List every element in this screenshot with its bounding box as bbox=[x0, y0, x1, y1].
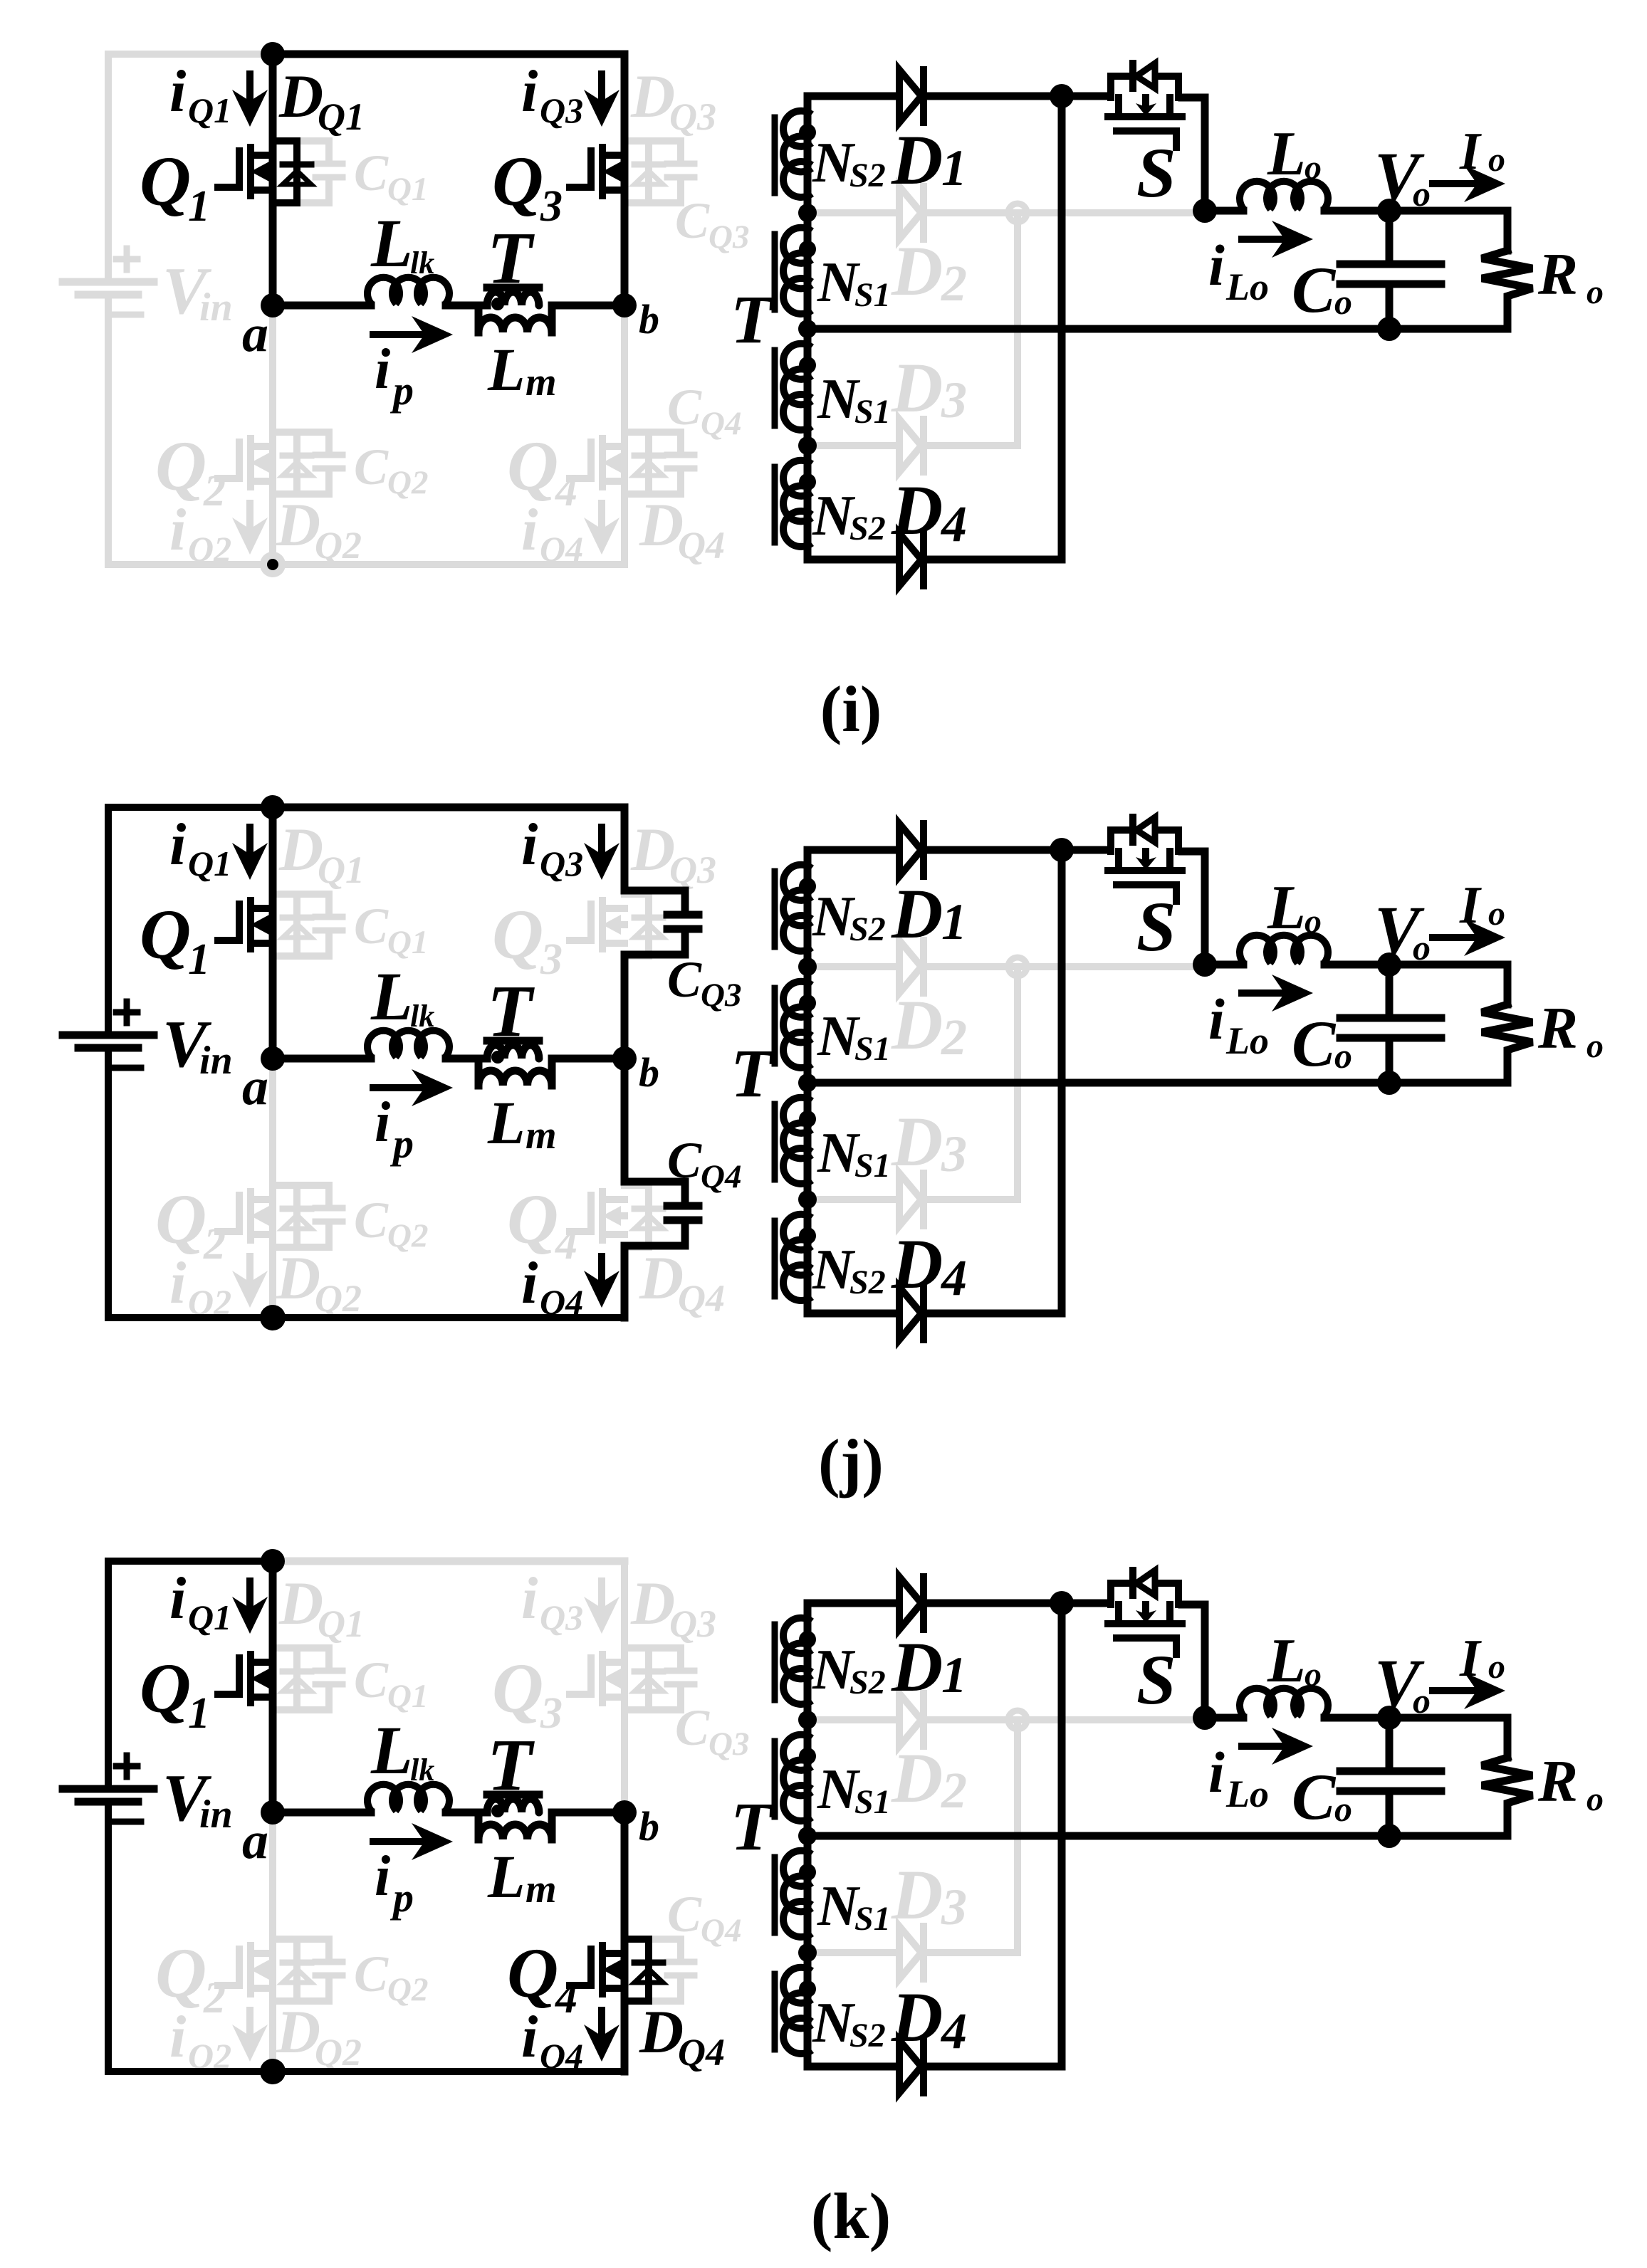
svg-text:Lo: Lo bbox=[1225, 1019, 1269, 1062]
svg-text:1: 1 bbox=[188, 1689, 210, 1738]
svg-text:S1: S1 bbox=[854, 1147, 891, 1185]
inductor Llk (j) bbox=[367, 1031, 399, 1057]
svg-text:i: i bbox=[521, 2004, 538, 2070]
node: output return (j) bbox=[1377, 1071, 1401, 1095]
svg-text:3: 3 bbox=[540, 182, 563, 231]
arrow iQ2 (j) bbox=[246, 1256, 253, 1281]
capacitor CQ2 (i) bbox=[297, 432, 329, 452]
svg-text:Lo: Lo bbox=[1225, 1773, 1269, 1815]
wire: cathode bus (i) bbox=[1058, 96, 1066, 560]
body diode DQ2 (j) bbox=[273, 1185, 297, 1247]
inductor Lm (k) bbox=[475, 1812, 483, 1839]
svg-text:1: 1 bbox=[188, 935, 210, 984]
svg-text:S2: S2 bbox=[849, 157, 886, 194]
arrow iQ1 (k) bbox=[246, 1581, 253, 1607]
svg-text:C: C bbox=[354, 439, 389, 495]
svg-text:S2: S2 bbox=[849, 510, 886, 547]
capacitor CQ2 (j) bbox=[297, 1185, 329, 1205]
wire: transformer to node b (j) bbox=[552, 1055, 624, 1063]
transformer T secondary core (i) bbox=[772, 117, 778, 193]
wire: transformer to node b (i) bbox=[552, 302, 624, 310]
svg-text:Q: Q bbox=[155, 1933, 206, 2012]
voltage source Vin (k) bbox=[63, 1785, 154, 1793]
svg-text:i: i bbox=[521, 1565, 538, 1632]
svg-text:T: T bbox=[731, 1035, 775, 1111]
svg-text:i: i bbox=[521, 812, 538, 878]
svg-text:Q1: Q1 bbox=[387, 924, 428, 961]
wire: top rail left (k) bbox=[108, 1558, 273, 1565]
svg-text:S2: S2 bbox=[849, 2017, 886, 2054]
winding NS1 upper (i) bbox=[783, 228, 812, 263]
node Vo (j) bbox=[1377, 952, 1401, 977]
node: D2 open circle (i) bbox=[1008, 204, 1027, 222]
svg-text:Q: Q bbox=[155, 426, 206, 505]
transistor Q2 (off) (i) bbox=[218, 442, 239, 478]
wire: left leg through Q1 (i) bbox=[269, 54, 277, 305]
arrow iQ4 (i) bbox=[598, 503, 605, 527]
wire: S to Lo node (j) bbox=[1182, 851, 1205, 965]
body diode of S (i) bbox=[1111, 76, 1129, 98]
svg-text:2: 2 bbox=[203, 1220, 226, 1269]
svg-text:1: 1 bbox=[941, 140, 967, 196]
arrow iQ2 (k) bbox=[246, 2010, 253, 2035]
svg-text:Q2: Q2 bbox=[387, 464, 428, 501]
winding NS1 lower (k) bbox=[783, 1851, 812, 1886]
node: NS2/NS1 junction (j) bbox=[798, 957, 817, 976]
transistor Q2 (off) (j) bbox=[218, 1195, 239, 1232]
svg-text:a: a bbox=[242, 1812, 268, 1870]
node: bottom junction (k) bbox=[260, 2059, 286, 2084]
svg-text:Q3: Q3 bbox=[669, 849, 716, 891]
wire: right leg above node b (k) bbox=[621, 1561, 628, 1812]
arrow iQ1 (j) bbox=[246, 827, 253, 853]
wire: Vin input frame left (i) bbox=[105, 54, 112, 282]
capacitor Co (j) bbox=[1386, 965, 1394, 1014]
svg-text:D: D bbox=[891, 1102, 943, 1181]
wire: secondary winding stack (k) bbox=[804, 1603, 812, 2049]
svg-text:1: 1 bbox=[941, 1647, 967, 1703]
svg-text:C: C bbox=[354, 145, 389, 201]
wire: Vin input frame left (j) bbox=[105, 807, 112, 1035]
wire: right leg below node b (j) bbox=[621, 1059, 629, 1182]
svg-text:T: T bbox=[487, 217, 535, 299]
arrow iQ3 (k) bbox=[598, 1581, 605, 1607]
wire: left leg through Q1 (j) bbox=[269, 807, 277, 1059]
svg-text:Q1: Q1 bbox=[188, 844, 231, 883]
capacitor CQ1 (j) bbox=[297, 894, 329, 914]
node: NS2/NS1 junction (i) bbox=[798, 204, 817, 222]
svg-text:D: D bbox=[891, 1627, 943, 1706]
svg-text:C: C bbox=[1292, 1007, 1337, 1080]
svg-text:S: S bbox=[1136, 133, 1176, 212]
svg-text:Q3: Q3 bbox=[540, 90, 583, 130]
svg-text:I: I bbox=[1459, 122, 1482, 181]
svg-text:in: in bbox=[199, 1039, 233, 1083]
svg-text:3: 3 bbox=[540, 1689, 563, 1738]
node Vo (k) bbox=[1377, 1706, 1401, 1730]
wire: top rail right (i) bbox=[273, 51, 624, 58]
node: center tap (k) bbox=[798, 1827, 817, 1845]
capacitor CQ3 (i) bbox=[649, 141, 681, 161]
svg-text:lk: lk bbox=[410, 1753, 434, 1787]
svg-text:S1: S1 bbox=[854, 1900, 891, 1938]
wire: left leg below node a (i) bbox=[269, 305, 276, 565]
wire: right leg below node b (k) bbox=[621, 1812, 629, 2072]
svg-text:Q2: Q2 bbox=[387, 1217, 428, 1254]
svg-text:D: D bbox=[639, 1997, 684, 2066]
svg-text:i: i bbox=[521, 497, 538, 563]
svg-text:i: i bbox=[375, 1845, 390, 1908]
svg-text:Q: Q bbox=[507, 426, 558, 505]
svg-text:o: o bbox=[1488, 141, 1505, 179]
node: D2 open circle (k) bbox=[1008, 1711, 1027, 1729]
svg-text:Q2: Q2 bbox=[315, 524, 362, 567]
svg-text:L: L bbox=[487, 335, 526, 404]
svg-text:D: D bbox=[630, 62, 675, 130]
svg-text:D: D bbox=[891, 1855, 943, 1934]
capacitor CQ3 (k) bbox=[649, 1648, 681, 1668]
transistor Q3 (k) bbox=[570, 1658, 591, 1694]
svg-text:Q: Q bbox=[140, 142, 191, 221]
svg-text:m: m bbox=[526, 1867, 557, 1911]
wire: left leg through Q1 (k) bbox=[269, 1561, 277, 1812]
svg-text:Q1: Q1 bbox=[387, 171, 428, 208]
inductor Lm (j) bbox=[475, 1059, 483, 1086]
switch S (j) bbox=[1108, 867, 1129, 874]
svg-text:i: i bbox=[521, 58, 538, 125]
svg-text:4: 4 bbox=[555, 1974, 577, 2022]
winding NS2 bottom (i) bbox=[783, 461, 812, 496]
svg-text:S1: S1 bbox=[854, 276, 891, 314]
svg-text:C: C bbox=[354, 1192, 389, 1249]
svg-text:C: C bbox=[675, 1699, 710, 1756]
body diode DQ3 (k) bbox=[624, 1648, 649, 1710]
svg-text:o: o bbox=[1334, 1036, 1352, 1076]
diode D1 (k) bbox=[807, 1600, 896, 1607]
svg-text:4: 4 bbox=[940, 495, 967, 552]
svg-text:(k): (k) bbox=[811, 2180, 891, 2252]
wire: secondary winding stack (i) bbox=[804, 96, 812, 542]
arrow Io (i) bbox=[1433, 180, 1475, 187]
wire: cathode bus (k) bbox=[1058, 1603, 1066, 2067]
capacitor CQ4 (k) bbox=[649, 1939, 681, 1959]
arrow iQ4 (j) bbox=[598, 1256, 605, 1281]
wire: Vo to Ro (i) bbox=[1389, 211, 1507, 251]
svg-text:D: D bbox=[639, 1244, 684, 1312]
transformer T primary winding (k) bbox=[487, 1799, 539, 1812]
wire: right leg above node b (i) bbox=[621, 54, 629, 305]
winding NS1 upper (j) bbox=[783, 982, 812, 1017]
diode D3 (off) (k) bbox=[807, 1949, 896, 1956]
wire: secondary winding stack (j) bbox=[804, 850, 812, 1296]
body diode DQ3 (i) bbox=[624, 141, 649, 203]
svg-text:D: D bbox=[891, 874, 943, 953]
node Vo (i) bbox=[1377, 199, 1401, 223]
svg-text:C: C bbox=[667, 379, 702, 436]
svg-text:D: D bbox=[276, 1997, 320, 2066]
node: top junction (k) bbox=[261, 1549, 285, 1573]
winding NS2 top (i) bbox=[783, 111, 812, 147]
transistor Q4 (k) bbox=[570, 1949, 591, 1985]
resistor Ro (j) bbox=[1482, 1004, 1532, 1083]
svg-text:Q4: Q4 bbox=[701, 1912, 741, 1949]
capacitor Co (k) bbox=[1386, 1718, 1394, 1768]
voltage source Vin (j) bbox=[63, 1031, 154, 1039]
switch S (k) bbox=[1108, 1620, 1129, 1627]
svg-text:S: S bbox=[1136, 887, 1176, 966]
svg-text:4: 4 bbox=[555, 1220, 577, 1269]
transistor Q1 (i) bbox=[218, 151, 239, 187]
wire: top rail right (j) bbox=[273, 804, 624, 812]
svg-text:Q4: Q4 bbox=[678, 524, 725, 567]
svg-text:4: 4 bbox=[940, 2002, 967, 2059]
wire: Vo to Ro (k) bbox=[1389, 1718, 1507, 1758]
wire: top rail left (j) bbox=[108, 804, 273, 811]
svg-text:L: L bbox=[370, 205, 413, 281]
svg-text:Q: Q bbox=[492, 895, 543, 974]
svg-text:C: C bbox=[667, 951, 702, 1008]
svg-text:o: o bbox=[1586, 1027, 1604, 1065]
wire: right leg above node b (j) bbox=[621, 807, 629, 891]
node: D1 cathode junction (i) bbox=[1050, 84, 1074, 108]
svg-text:4: 4 bbox=[555, 467, 577, 515]
node: D1 cathode junction (j) bbox=[1050, 838, 1074, 862]
svg-text:lk: lk bbox=[410, 999, 434, 1034]
svg-text:i: i bbox=[169, 2004, 186, 2070]
svg-text:R: R bbox=[1537, 995, 1578, 1061]
svg-text:i: i bbox=[169, 812, 186, 878]
diode D2 (off) (i) bbox=[807, 209, 896, 216]
svg-text:Q4: Q4 bbox=[678, 2031, 725, 2074]
node b (j) bbox=[612, 1046, 637, 1071]
inductor Lo (k) bbox=[1205, 1714, 1243, 1722]
svg-text:o: o bbox=[1304, 1656, 1322, 1694]
capacitor CQ2 (k) bbox=[297, 1939, 329, 1959]
svg-text:D: D bbox=[891, 348, 943, 427]
svg-text:S2: S2 bbox=[849, 1664, 886, 1701]
wire: transformer to node b (k) bbox=[552, 1809, 624, 1817]
svg-text:i: i bbox=[1208, 233, 1225, 298]
inductor Llk (i) bbox=[367, 278, 399, 304]
svg-text:Q3: Q3 bbox=[540, 844, 583, 883]
node: NS1/NS2 junction (k) bbox=[798, 1943, 817, 1962]
node b (i) bbox=[612, 293, 637, 317]
svg-text:S1: S1 bbox=[854, 1030, 891, 1068]
svg-text:m: m bbox=[526, 1113, 557, 1157]
svg-text:i: i bbox=[169, 1250, 186, 1316]
wire: Vin input frame left (k) bbox=[105, 1561, 112, 1789]
body diode DQ4 (k) bbox=[624, 1939, 649, 2001]
wire: bottom rail (i) bbox=[108, 561, 624, 568]
svg-text:m: m bbox=[526, 360, 557, 404]
transformer T primary core (j) bbox=[487, 1037, 539, 1045]
svg-text:C: C bbox=[667, 1886, 702, 1943]
wire: top rail left (i) bbox=[108, 51, 273, 58]
svg-text:i: i bbox=[375, 1091, 390, 1154]
svg-text:L: L bbox=[1267, 873, 1306, 943]
svg-text:2: 2 bbox=[203, 1974, 226, 2022]
svg-text:2: 2 bbox=[941, 1762, 967, 1819]
svg-text:Q4: Q4 bbox=[678, 1277, 725, 1320]
svg-text:Q: Q bbox=[492, 142, 543, 221]
capacitor CQ1 (i) bbox=[297, 141, 329, 161]
svg-text:o: o bbox=[1304, 903, 1322, 940]
svg-text:3: 3 bbox=[941, 1125, 967, 1182]
wire: bottom rail (j) bbox=[108, 1314, 624, 1321]
arrow iQ3 (i) bbox=[598, 74, 605, 100]
svg-text:Q4: Q4 bbox=[540, 529, 583, 569]
arrow iQ4 (k) bbox=[598, 2010, 605, 2035]
svg-text:D: D bbox=[639, 490, 684, 559]
svg-text:Q4: Q4 bbox=[701, 1158, 741, 1195]
svg-text:D: D bbox=[891, 1978, 943, 2057]
svg-text:S2: S2 bbox=[849, 1264, 886, 1301]
wire: Vo to Ro (j) bbox=[1389, 965, 1507, 1004]
svg-text:S: S bbox=[1136, 1640, 1176, 1719]
svg-text:4: 4 bbox=[940, 1249, 967, 1306]
svg-text:S1: S1 bbox=[854, 393, 891, 431]
transistor Q1 (j) bbox=[218, 904, 239, 940]
wire: S to Lo node (k) bbox=[1182, 1605, 1205, 1718]
svg-text:o: o bbox=[1334, 282, 1352, 322]
winding NS2 bottom (j) bbox=[783, 1214, 812, 1250]
node: bottom junction dot (i) bbox=[267, 559, 278, 570]
winding NS1 lower (i) bbox=[783, 344, 812, 379]
svg-text:D: D bbox=[891, 985, 943, 1064]
winding NS2 top (j) bbox=[783, 865, 812, 901]
svg-text:2: 2 bbox=[941, 1009, 967, 1066]
node: output return (k) bbox=[1377, 1824, 1401, 1848]
svg-text:Q3: Q3 bbox=[709, 219, 749, 256]
wire: node a to Llk (i) bbox=[273, 302, 371, 310]
body diode DQ4 (j) bbox=[624, 1185, 649, 1247]
node: bottom junction (i) bbox=[260, 552, 286, 577]
svg-text:Q2: Q2 bbox=[315, 1277, 362, 1320]
wire: S to Lo node (i) bbox=[1182, 98, 1205, 211]
svg-text:D: D bbox=[891, 231, 943, 310]
resistor Ro (k) bbox=[1482, 1758, 1532, 1836]
svg-text:Q: Q bbox=[507, 1933, 558, 2012]
capacitor CQ4 series jog (j) bbox=[624, 1182, 685, 1203]
body diode DQ2 (i) bbox=[273, 432, 297, 494]
svg-text:o: o bbox=[1586, 273, 1604, 311]
inductor Lo (j) bbox=[1205, 961, 1243, 969]
arrow iLo (i) bbox=[1242, 236, 1283, 243]
svg-text:D: D bbox=[630, 815, 675, 883]
svg-text:Q4: Q4 bbox=[540, 2036, 583, 2076]
transformer T primary core (k) bbox=[487, 1791, 539, 1799]
svg-text:D: D bbox=[891, 1738, 943, 1817]
svg-text:i: i bbox=[1208, 1740, 1225, 1805]
wire: bottom rail (k) bbox=[108, 2068, 624, 2075]
body diode DQ1 (i) bbox=[273, 141, 297, 203]
diode D4 (i) bbox=[807, 542, 896, 560]
body diode DQ3 (j) bbox=[624, 894, 649, 956]
svg-text:o: o bbox=[1488, 895, 1505, 933]
svg-text:C: C bbox=[1292, 253, 1337, 326]
svg-text:i: i bbox=[169, 1565, 186, 1632]
svg-text:D: D bbox=[276, 490, 320, 559]
svg-text:S1: S1 bbox=[854, 1783, 891, 1821]
wire: left leg below node a (j) bbox=[269, 1059, 276, 1318]
svg-text:o: o bbox=[1304, 149, 1322, 187]
svg-text:Q: Q bbox=[492, 1649, 543, 1728]
winding NS2 top (k) bbox=[783, 1618, 812, 1654]
node: S source / Lo input (k) bbox=[1193, 1706, 1217, 1730]
diode D1 (i) bbox=[807, 93, 896, 100]
arrow iQ1 (i) bbox=[246, 74, 253, 100]
arrow iQ3 (j) bbox=[598, 827, 605, 853]
svg-text:L: L bbox=[370, 958, 413, 1034]
diode D4 (k) bbox=[807, 2049, 896, 2067]
svg-text:1: 1 bbox=[941, 893, 967, 950]
svg-text:D: D bbox=[278, 1569, 323, 1637]
transformer T primary winding (j) bbox=[487, 1045, 539, 1059]
node: top junction (j) bbox=[261, 795, 285, 819]
wire: center tap output (k) bbox=[807, 1832, 1507, 1840]
svg-text:1: 1 bbox=[188, 182, 210, 231]
svg-text:I: I bbox=[1459, 1629, 1482, 1688]
svg-text:b: b bbox=[639, 1803, 659, 1849]
arrow ip (j) bbox=[373, 1084, 423, 1091]
node b (k) bbox=[612, 1800, 637, 1825]
wire: center tap output (i) bbox=[807, 325, 1507, 333]
wire: left leg below node a (k) bbox=[269, 1812, 276, 2072]
wire: right leg below node b (i) bbox=[621, 305, 628, 565]
arrow ip (i) bbox=[373, 331, 423, 338]
winding NS1 lower (j) bbox=[783, 1098, 812, 1133]
transistor Q2 (off) (k) bbox=[218, 1949, 239, 1985]
transistor Q3 (j) bbox=[570, 904, 591, 940]
wire: node a to Llk (k) bbox=[273, 1809, 371, 1817]
transformer T primary core (i) bbox=[487, 284, 539, 292]
capacitor CQ3 series jog (j) bbox=[624, 891, 685, 912]
body diode of S (k) bbox=[1111, 1583, 1129, 1605]
arrow Io (j) bbox=[1433, 934, 1475, 941]
svg-text:D: D bbox=[278, 62, 323, 130]
wire: center tap output (j) bbox=[807, 1079, 1507, 1087]
winding NS1 upper (k) bbox=[783, 1735, 812, 1770]
arrow iLo (j) bbox=[1242, 989, 1283, 997]
svg-text:(i): (i) bbox=[820, 673, 882, 745]
transformer T secondary core (k) bbox=[772, 1624, 778, 1700]
svg-text:D: D bbox=[891, 1224, 943, 1303]
svg-text:Q2: Q2 bbox=[188, 529, 231, 569]
svg-text:T: T bbox=[731, 281, 775, 357]
svg-text:L: L bbox=[1267, 1627, 1306, 1696]
node: S source / Lo input (j) bbox=[1193, 952, 1217, 977]
capacitor CQ4 (i) bbox=[649, 432, 681, 452]
svg-text:p: p bbox=[389, 367, 414, 414]
svg-text:C: C bbox=[354, 1652, 389, 1708]
diode D3 (off) (j) bbox=[807, 1196, 896, 1203]
transistor Q1 (k) bbox=[218, 1658, 239, 1694]
body diode of S (j) bbox=[1111, 830, 1129, 851]
resistor Ro (i) bbox=[1482, 251, 1532, 329]
svg-text:S2: S2 bbox=[849, 910, 886, 948]
svg-text:i: i bbox=[521, 1250, 538, 1316]
capacitor Co (i) bbox=[1386, 211, 1394, 261]
svg-text:Lo: Lo bbox=[1225, 266, 1269, 308]
inductor Lo (i) bbox=[1205, 207, 1243, 215]
svg-text:D: D bbox=[891, 120, 943, 199]
svg-text:2: 2 bbox=[203, 467, 226, 515]
svg-text:T: T bbox=[731, 1788, 775, 1864]
svg-text:L: L bbox=[370, 1712, 413, 1788]
body diode DQ1 (k) bbox=[273, 1648, 297, 1710]
svg-text:L: L bbox=[1267, 120, 1306, 189]
svg-text:R: R bbox=[1537, 1748, 1578, 1815]
